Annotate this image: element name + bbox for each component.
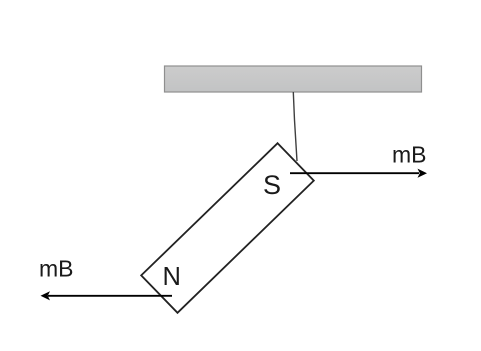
force arrow left (mB) bbox=[41, 291, 173, 300]
svg-text:mB: mB bbox=[39, 256, 74, 282]
svg-text:N: N bbox=[163, 263, 181, 291]
svg-text:mB: mB bbox=[392, 142, 427, 168]
svg-text:S: S bbox=[263, 170, 281, 200]
ceiling bar bbox=[165, 66, 422, 92]
string bbox=[293, 92, 297, 161]
bar magnet bbox=[141, 143, 314, 313]
force arrow right (mB) bbox=[290, 169, 427, 178]
